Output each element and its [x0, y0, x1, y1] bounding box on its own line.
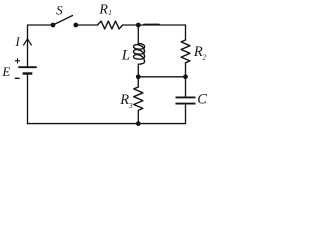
current arrow I	[24, 39, 32, 45]
svg-text:3: 3	[128, 101, 133, 110]
svg-text:S: S	[56, 3, 63, 18]
wire L branch top	[137, 25, 139, 43]
inductor L	[133, 43, 144, 64]
label minus	[15, 77, 20, 79]
wire middle horizontal	[138, 76, 185, 78]
switch S	[51, 16, 79, 28]
resistor R2	[181, 40, 190, 63]
wire node to R3	[137, 77, 139, 87]
node junction top of L branch	[136, 23, 141, 28]
wire R1 to top-right corner	[123, 24, 186, 26]
wire overlap artifact	[144, 23, 159, 25]
wire R3 to bottom	[137, 110, 139, 123]
battery E plates	[18, 67, 36, 73]
wire battery to bottom	[27, 75, 29, 124]
svg-text:R: R	[98, 3, 108, 18]
resistor R1	[98, 21, 123, 29]
svg-text:C: C	[197, 91, 207, 107]
wire right side down to R2	[185, 25, 187, 40]
node junction R2/C	[183, 74, 188, 79]
svg-text:L: L	[121, 47, 130, 63]
node junction L/R3	[136, 74, 141, 79]
node junction bottom	[136, 121, 141, 126]
capacitor C	[176, 97, 196, 103]
resistor R3	[134, 87, 143, 110]
wire switch to R1	[76, 24, 98, 26]
svg-text:R: R	[119, 92, 129, 108]
wire capacitor to bottom wire	[28, 105, 186, 124]
wire R2 to node	[185, 63, 187, 77]
svg-text:2: 2	[202, 53, 206, 62]
svg-text:I: I	[15, 35, 21, 49]
wire top-left segment	[28, 25, 54, 66]
wire node to capacitor	[185, 77, 187, 97]
svg-text:1: 1	[108, 8, 112, 17]
svg-text:E: E	[1, 64, 10, 79]
label plus	[15, 58, 20, 63]
wire L to node	[137, 64, 139, 77]
